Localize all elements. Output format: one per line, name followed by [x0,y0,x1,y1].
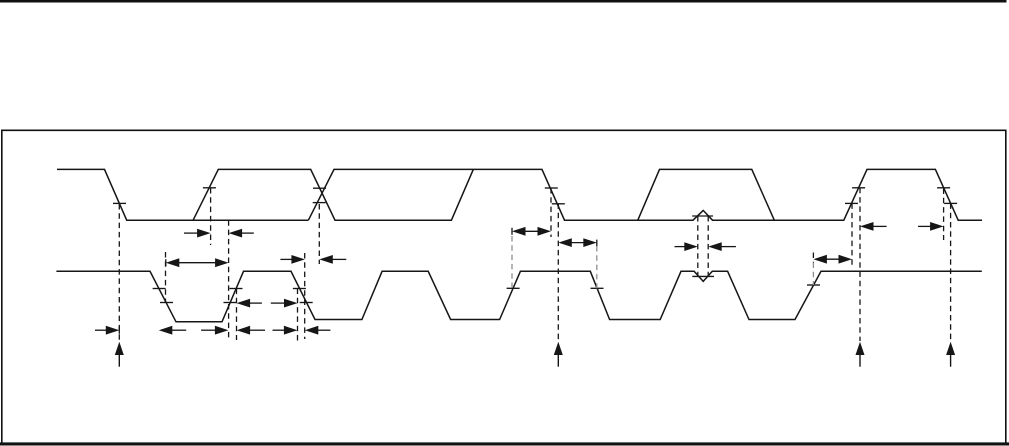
dashed ref line x297 [297,289,299,342]
dimension arrow row y330 left-pointing at x304 [317,329,330,331]
tick on bottom waveform falling edge 3 [591,287,604,289]
dimension arrow row y303 left-pointing at x236 [249,302,262,304]
dashed ref line x813 upper [812,253,814,263]
tick upper on bottom waveform rising edge 1 [230,288,243,290]
gray dashed ref line x512 [511,236,513,288]
dashed ref line x551 [550,188,552,237]
dashed ref line x165 [165,252,167,303]
tick upper on top waveform falling edge 2 [545,187,558,189]
dashed ref line x852 [851,203,853,267]
dimension arrow row y330 right-pointing at x227 [201,329,216,331]
tick on top waveform rising edge 1 [203,187,216,189]
tick across narrow dip [692,275,714,277]
dashed ref line x708 [707,216,709,277]
dimension arrow pair row y233 at x210 [184,232,198,234]
dashed ref line x236 [236,289,238,341]
dashed ref line x319 [318,204,320,264]
page bottom rule [0,442,1009,445]
tick upper on bottom waveform falling edge 2 [293,288,306,290]
dimension double arrow y262 x165-x228 [165,259,167,266]
dimension arrow row y330 left-pointing at x237 [249,329,265,331]
tick on bottom waveform rising edge 5 [807,284,820,286]
dimension arrow pair row y233 at x228 [241,232,254,234]
dimension arrow row y303 right-pointing at x297 [271,302,285,304]
page top rule [0,0,1007,3]
dimension double arrow y231 x512-x551 [511,228,513,235]
up arrow x951 [946,342,955,355]
tick upper on top waveform falling edge 4 [937,187,950,189]
figure border box [2,130,1006,444]
tick lower on top waveform falling edge 2 [552,203,565,205]
gray dashed ref line x813 lower [812,263,814,286]
tick lower on top waveform rising edge 3 [845,202,858,204]
dimension arrow row y259 left-pointing at x319 [332,258,347,260]
dashed ref line x951 [950,203,952,341]
tick lower on bottom waveform falling edge 1 [160,302,173,304]
dashed ref line x558 [557,203,559,341]
dashed ref line x228 [228,220,230,340]
tick lower on top waveform falling edge 4 [944,202,957,204]
tick on X-cross rising edge [313,202,326,204]
tick on bottom waveform rising edge 3 [507,287,520,289]
dimension arrow row y226 right-pointing at x944 [918,225,931,227]
dashed ref line x860 [859,188,861,341]
tick across narrow peak [692,215,713,217]
gray dashed ref line x597 [596,246,598,288]
tick upper on top waveform rising edge 3 [852,187,865,189]
tick lower on bottom waveform falling edge 2 [300,302,313,304]
up arrow x558 [554,342,563,355]
dashed ref line x210 [210,188,212,245]
dimension arrow pair row y247 at narrow pulse [675,246,686,248]
dashed ref line x698 [697,216,699,277]
dashed ref line x944 [943,189,945,241]
tick lower on bottom waveform rising edge 1 [224,302,237,304]
dashed ref line x119 [118,204,120,342]
tick upper on bottom waveform falling edge 1 [153,288,166,290]
dimension arrow row y330 right-pointing at x119 [95,329,107,331]
dimension double arrow y243 x558-x597 [558,238,572,247]
tick on top waveform falling edge 1 [113,202,126,204]
dimension arrow row y330 left-pointing at x158 [171,329,186,331]
up arrow x860 [856,342,865,355]
dimension arrow row y330 right-pointing at x296 [273,329,285,331]
dashed ref line x305 [304,253,306,339]
dimension arrow row y226 left-pointing at x860 [873,225,887,227]
up arrow x119 [115,342,124,355]
dimension double arrow y259 x813-x852 [813,255,827,264]
wire top waveform main trace [57,169,982,220]
wire bottom waveform trace [56,271,981,322]
wire top waveform overlapping pulse [638,169,775,220]
dimension arrow row y259 right-pointing at x305 [280,258,292,260]
tick on X-cross falling edge [313,187,326,189]
